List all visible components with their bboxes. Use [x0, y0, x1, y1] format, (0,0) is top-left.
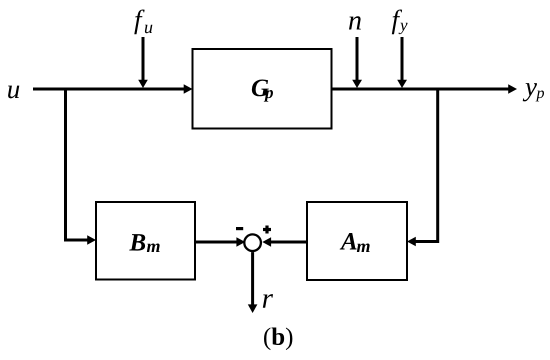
- wire branch yp down to Am: [407, 88, 438, 247]
- block Am: [307, 202, 407, 280]
- arrow summer down to r: [248, 252, 258, 313]
- block Bm: [96, 202, 195, 280]
- wire Bm to summer: [196, 237, 246, 247]
- label Am: [340, 233, 370, 252]
- node u label: [8, 86, 19, 99]
- block Gp: [193, 49, 332, 129]
- label f_y: [392, 9, 408, 34]
- label r: [263, 294, 273, 308]
- caption (b): [264, 327, 292, 350]
- wire Am to summer: [262, 237, 306, 247]
- label n: [349, 16, 361, 29]
- label y_p: [523, 83, 544, 101]
- arrow n into wire: [352, 37, 362, 88]
- arrow f_y into wire: [397, 37, 407, 88]
- wire branch u down to Bm: [66, 88, 97, 245]
- plus sign at summer: [263, 226, 271, 234]
- label Bm: [129, 234, 159, 252]
- label f_u: [134, 9, 152, 34]
- arrow f_u into wire: [138, 37, 148, 88]
- label Gp: [252, 79, 273, 101]
- summing junction circle: [244, 234, 261, 251]
- wire u to Gp: [33, 84, 193, 94]
- minus sign at summer: [236, 227, 243, 230]
- wire Gp to yp output: [332, 84, 517, 94]
